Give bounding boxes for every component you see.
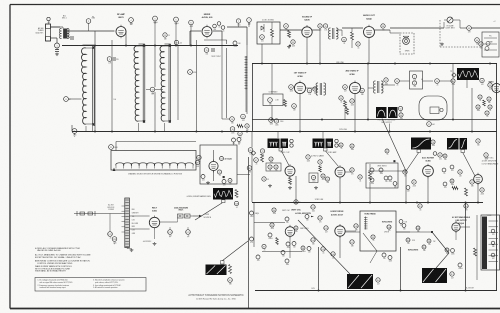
callout C27	[197, 155, 201, 163]
test point marker	[251, 151, 255, 155]
callout edge1	[250, 211, 254, 218]
wire	[369, 182, 371, 202]
wire B+ bus left	[72, 131, 250, 133]
wire B+ bus	[250, 131, 497, 133]
ground	[269, 184, 271, 185]
wire	[339, 236, 341, 258]
callout C84	[339, 143, 343, 150]
callout C8	[64, 97, 71, 102]
yoke socket box	[481, 215, 500, 270]
tube V2 mixer 6J6	[202, 25, 212, 39]
wire	[477, 183, 479, 202]
callout C83	[358, 175, 362, 183]
tube V6 1st video IF 6CB6	[294, 81, 305, 96]
callout C7c	[233, 41, 237, 48]
wire	[396, 231, 432, 233]
vert integrator box	[366, 163, 398, 188]
ground	[207, 181, 209, 182]
wire	[74, 133, 76, 135]
wire	[221, 40, 223, 119]
wire diag W5	[298, 220, 350, 274]
ground	[289, 186, 291, 187]
callout C65	[485, 111, 489, 118]
callout C110	[406, 238, 410, 245]
ground	[131, 249, 133, 250]
callout C16	[230, 117, 235, 125]
wire	[277, 131, 279, 138]
wire	[342, 27, 363, 29]
callout C119	[228, 278, 233, 286]
waveform W3	[411, 138, 431, 150]
wire	[471, 27, 500, 29]
callout C88c	[442, 168, 446, 175]
callout C75	[269, 157, 273, 164]
wire	[271, 64, 273, 94]
callout C102	[318, 216, 322, 224]
wire	[190, 30, 201, 32]
callout C99	[371, 235, 375, 242]
junction	[223, 176, 225, 178]
callout C94	[272, 208, 276, 215]
coil L3 osc coil	[160, 44, 171, 123]
callout C100b	[399, 220, 403, 227]
callout C109	[416, 226, 420, 233]
wire diag to W6 a	[432, 232, 449, 253]
wire	[389, 124, 391, 132]
wire	[367, 64, 369, 120]
wire diag W1	[282, 151, 290, 166]
wire	[399, 80, 409, 82]
callout C117	[450, 272, 454, 280]
coil L1 antenna coil	[82, 46, 95, 126]
callout C51	[350, 99, 354, 107]
wire	[306, 87, 316, 89]
callout C96c	[292, 242, 296, 249]
wire sync row bus	[252, 202, 483, 204]
filter cap C120	[168, 230, 173, 238]
wire	[175, 22, 177, 45]
resistor R11	[346, 108, 349, 115]
callout C108	[354, 224, 358, 232]
callout C118	[234, 201, 238, 209]
callout C96	[294, 226, 298, 233]
resistor R10	[344, 101, 347, 108]
wire	[68, 98, 81, 100]
callout C113	[445, 248, 449, 255]
callout C98d	[285, 259, 289, 266]
wire	[195, 40, 197, 131]
callout C122	[108, 232, 113, 240]
osc box	[200, 145, 237, 184]
wire	[322, 131, 324, 138]
wire	[94, 31, 96, 45]
callout C63	[476, 105, 480, 112]
AC line plug	[74, 213, 125, 215]
wire vertical x465	[465, 203, 467, 291]
callout C98c	[281, 251, 285, 258]
callout C70c	[433, 152, 437, 156]
wire	[139, 43, 145, 45]
wire video IF top bus	[252, 63, 497, 65]
resistor R22	[474, 248, 477, 256]
coil turret	[116, 163, 193, 166]
callout C19	[238, 131, 242, 139]
wire	[51, 37, 58, 39]
callout C6	[189, 20, 194, 28]
resistor R9	[284, 100, 287, 107]
callout C18	[230, 127, 235, 135]
callout C111	[427, 239, 431, 246]
wire	[246, 45, 248, 114]
wire	[354, 95, 356, 131]
ground	[56, 53, 58, 54]
resistor R17	[452, 187, 458, 190]
wire	[460, 226, 470, 228]
horiz trans box	[360, 211, 396, 251]
callout C33	[291, 40, 295, 48]
diode X1	[261, 26, 264, 30]
tube V9 sync clipper 6AW8	[285, 164, 295, 178]
wire	[443, 22, 445, 28]
callout C7b	[236, 19, 240, 27]
power transformer T1	[125, 198, 130, 248]
callout C123	[112, 237, 117, 245]
switch box	[111, 151, 196, 171]
waveform W5	[347, 274, 373, 289]
callout C14	[188, 70, 198, 75]
wire	[213, 30, 222, 32]
wire dashed	[439, 20, 441, 47]
callout C52	[384, 78, 388, 86]
speaker LS1	[400, 33, 414, 54]
callout top1	[232, 138, 236, 145]
callout C36	[342, 37, 347, 45]
callout C115	[418, 204, 422, 212]
sound takeoff box	[257, 22, 280, 44]
resistor R7	[351, 32, 354, 40]
tube V8 video amp (edge)	[492, 82, 500, 95]
waveform W2	[313, 139, 325, 149]
callout C29b	[222, 180, 226, 187]
wire	[251, 131, 253, 148]
wire dashed	[440, 46, 482, 48]
callout C5	[174, 17, 180, 25]
callout C50	[339, 96, 343, 104]
wire vertical x318	[318, 247, 320, 291]
wire	[339, 178, 341, 202]
coil L2 RF coil	[134, 44, 145, 123]
callout C2	[86, 18, 95, 24]
callout C7	[247, 18, 252, 26]
waveform W8	[206, 265, 227, 276]
callout C116	[376, 278, 380, 286]
box cluster sync2	[309, 173, 318, 183]
callout C67	[254, 158, 259, 166]
resistor R6a	[288, 31, 291, 38]
notes table box	[35, 278, 146, 292]
wire diag W6	[370, 251, 377, 263]
callout C88	[443, 154, 447, 161]
callout C89	[450, 179, 454, 186]
callout C78	[318, 160, 322, 168]
callout C40	[475, 38, 480, 46]
wire	[83, 44, 95, 46]
callout C17	[241, 114, 246, 122]
test point C15	[204, 48, 209, 56]
wire	[471, 88, 473, 131]
wire section divider	[248, 157, 250, 309]
callout top2	[237, 138, 241, 145]
wire diag F2 to AGC tube	[382, 119, 406, 172]
capacitor C11 electrolytic	[72, 129, 77, 137]
wire sound verticals	[261, 44, 263, 64]
callout C70b	[431, 140, 435, 147]
wire	[252, 64, 254, 132]
wire	[390, 27, 444, 29]
wire diag W2	[326, 151, 339, 167]
callout C62	[487, 97, 491, 104]
resistor R12	[483, 100, 486, 106]
tube V15 horiz output 6DQ6A	[452, 221, 460, 233]
tube V11 AGC keyer 6CB6	[423, 164, 434, 178]
wire	[368, 170, 406, 172]
resistor R16	[369, 172, 372, 180]
callout C59	[488, 83, 492, 91]
callout C60	[451, 79, 455, 86]
callout C46	[269, 118, 274, 126]
antenna terminal board	[46, 24, 51, 41]
capacitor C2b	[70, 36, 72, 40]
callout C107	[350, 240, 354, 248]
callout C42	[289, 85, 294, 93]
callout C94b	[285, 217, 289, 224]
label V3	[220, 157, 224, 161]
callout C87e	[406, 186, 410, 193]
callout C87	[412, 180, 416, 188]
border frame bottom	[10, 308, 500, 310]
filter cap C121	[186, 230, 191, 238]
callout C71	[484, 153, 488, 161]
callout C70	[476, 139, 480, 147]
callout C39	[467, 26, 472, 34]
resistor R23	[235, 190, 238, 198]
callout C57	[427, 122, 435, 127]
osc trimmer ladder	[245, 56, 248, 58]
wire	[337, 29, 342, 31]
arrow 135V source	[193, 215, 199, 217]
wire	[295, 176, 297, 202]
wire	[109, 214, 111, 232]
callout C93	[294, 200, 301, 204]
wire	[440, 80, 454, 82]
waveform W4	[447, 138, 459, 150]
callout C91	[470, 180, 474, 188]
coil taps	[115, 166, 117, 169]
callout C92	[480, 188, 484, 196]
wire junction dots	[94, 131, 96, 133]
selenium rectifier M5	[178, 214, 184, 218]
wire	[466, 80, 468, 88]
balun transformer M1	[63, 29, 67, 39]
callout C106	[331, 252, 335, 259]
callout C34	[318, 24, 322, 32]
wire vertical x254	[253, 202, 255, 247]
callout C113c	[458, 263, 463, 270]
callout C95b	[268, 233, 273, 240]
callout C32	[284, 24, 289, 32]
callout C95	[270, 223, 274, 230]
callout C81	[325, 177, 329, 184]
callout C41	[479, 42, 483, 50]
resistor R24	[229, 265, 232, 274]
callout C82	[350, 168, 354, 176]
callout C21	[109, 145, 119, 150]
wire	[226, 48, 228, 118]
callout C48	[343, 85, 348, 93]
ground	[154, 242, 156, 243]
callout C5b	[153, 16, 159, 24]
callout C37	[356, 42, 360, 50]
wire diag in box	[363, 233, 377, 251]
callout C100	[387, 225, 391, 232]
wire tuner B+ bus	[62, 45, 238, 47]
callout C53	[395, 79, 400, 87]
callout C55	[398, 106, 402, 113]
ground	[315, 186, 317, 187]
wire	[177, 45, 179, 120]
wire	[375, 29, 391, 31]
callout C96b	[286, 242, 290, 249]
trap box	[410, 71, 423, 89]
callout C100e	[388, 256, 392, 263]
wire	[312, 29, 320, 31]
wire	[165, 43, 171, 45]
wire	[237, 174, 250, 176]
waveform W1	[268, 139, 280, 149]
callout C38	[381, 24, 385, 32]
wire	[160, 221, 178, 223]
callout C64	[488, 105, 492, 112]
callout C20	[245, 124, 249, 132]
callout C31	[260, 35, 265, 43]
callout C100d	[382, 253, 386, 260]
wire diag W3	[406, 153, 419, 172]
border frame left	[9, 5, 11, 309]
callout C77	[306, 155, 310, 163]
tube V4 sound IF 6AU6	[302, 25, 312, 39]
wire	[51, 26, 64, 28]
tube V3 osc 6AF4	[209, 160, 218, 173]
callout C29c	[201, 175, 205, 182]
resistor R19	[276, 238, 279, 245]
callout C35	[323, 24, 327, 32]
tube V16 rectifier 5U4G	[149, 216, 159, 230]
callout C103	[324, 226, 328, 234]
callout C87b	[385, 149, 389, 156]
callout C56	[399, 113, 403, 120]
wire	[71, 125, 73, 131]
wire	[190, 25, 192, 45]
tube V5 audio out 6AQ5	[364, 25, 375, 40]
resistor R14	[289, 178, 292, 185]
callout C90	[458, 170, 462, 178]
wire diag to W6 b	[436, 253, 449, 268]
resistor R18	[465, 188, 468, 196]
wire	[125, 31, 127, 45]
resistor R3	[237, 125, 243, 128]
wire diag W8	[222, 241, 248, 261]
IF transformer M3	[316, 83, 326, 95]
wire	[345, 231, 360, 233]
callout C114	[464, 204, 468, 212]
wire	[51, 26, 61, 28]
wire	[129, 215, 149, 217]
callout C5c	[163, 33, 167, 41]
wire vertical x497	[496, 64, 498, 291]
waveform W7	[213, 188, 233, 200]
callout C13	[150, 87, 155, 95]
tube V14 horiz AFC 6CG7	[335, 224, 345, 238]
wire	[453, 19, 460, 21]
waveform W6	[422, 268, 447, 283]
callout C69	[438, 153, 442, 161]
video det response block F1	[457, 68, 479, 80]
callout C100c	[402, 224, 406, 231]
callout C89b	[443, 182, 447, 189]
capacitor C1	[55, 43, 60, 51]
wire	[116, 141, 196, 143]
wire	[138, 123, 140, 131]
wire	[68, 30, 115, 32]
wire	[94, 45, 96, 131]
callout C44	[292, 104, 297, 112]
test point diamond	[452, 73, 456, 77]
wire	[390, 32, 400, 34]
wire	[345, 171, 352, 173]
wire	[154, 230, 156, 240]
callout C88b	[450, 165, 454, 172]
callout C10	[174, 40, 182, 44]
wire B+ boost bus	[255, 290, 497, 292]
sound IF transformer M2	[329, 28, 339, 39]
callout C98b	[307, 247, 311, 254]
wire	[427, 177, 429, 202]
coil in box	[364, 217, 368, 219]
callout C85	[350, 144, 354, 151]
wire	[289, 238, 291, 259]
osc cluster	[213, 24, 217, 31]
border frame top	[10, 4, 500, 6]
wire vertical x400	[400, 247, 402, 290]
callout C61	[478, 95, 482, 102]
callout C101	[311, 205, 315, 213]
tube V12 vert osc	[474, 173, 483, 185]
wire	[213, 150, 215, 161]
T1 tap stubs	[122, 205, 125, 207]
wire	[452, 64, 454, 79]
arrow wiper	[113, 168, 116, 171]
callout C66	[248, 148, 253, 156]
callout C54	[435, 79, 440, 87]
volume control R8	[447, 17, 453, 23]
wire	[154, 44, 156, 87]
callout C43	[307, 88, 312, 96]
callout C112	[422, 245, 426, 252]
junction	[394, 160, 396, 162]
callout C104	[311, 238, 315, 246]
picture detector response blocks F2a F2b	[376, 107, 387, 118]
callout C58	[480, 78, 484, 86]
